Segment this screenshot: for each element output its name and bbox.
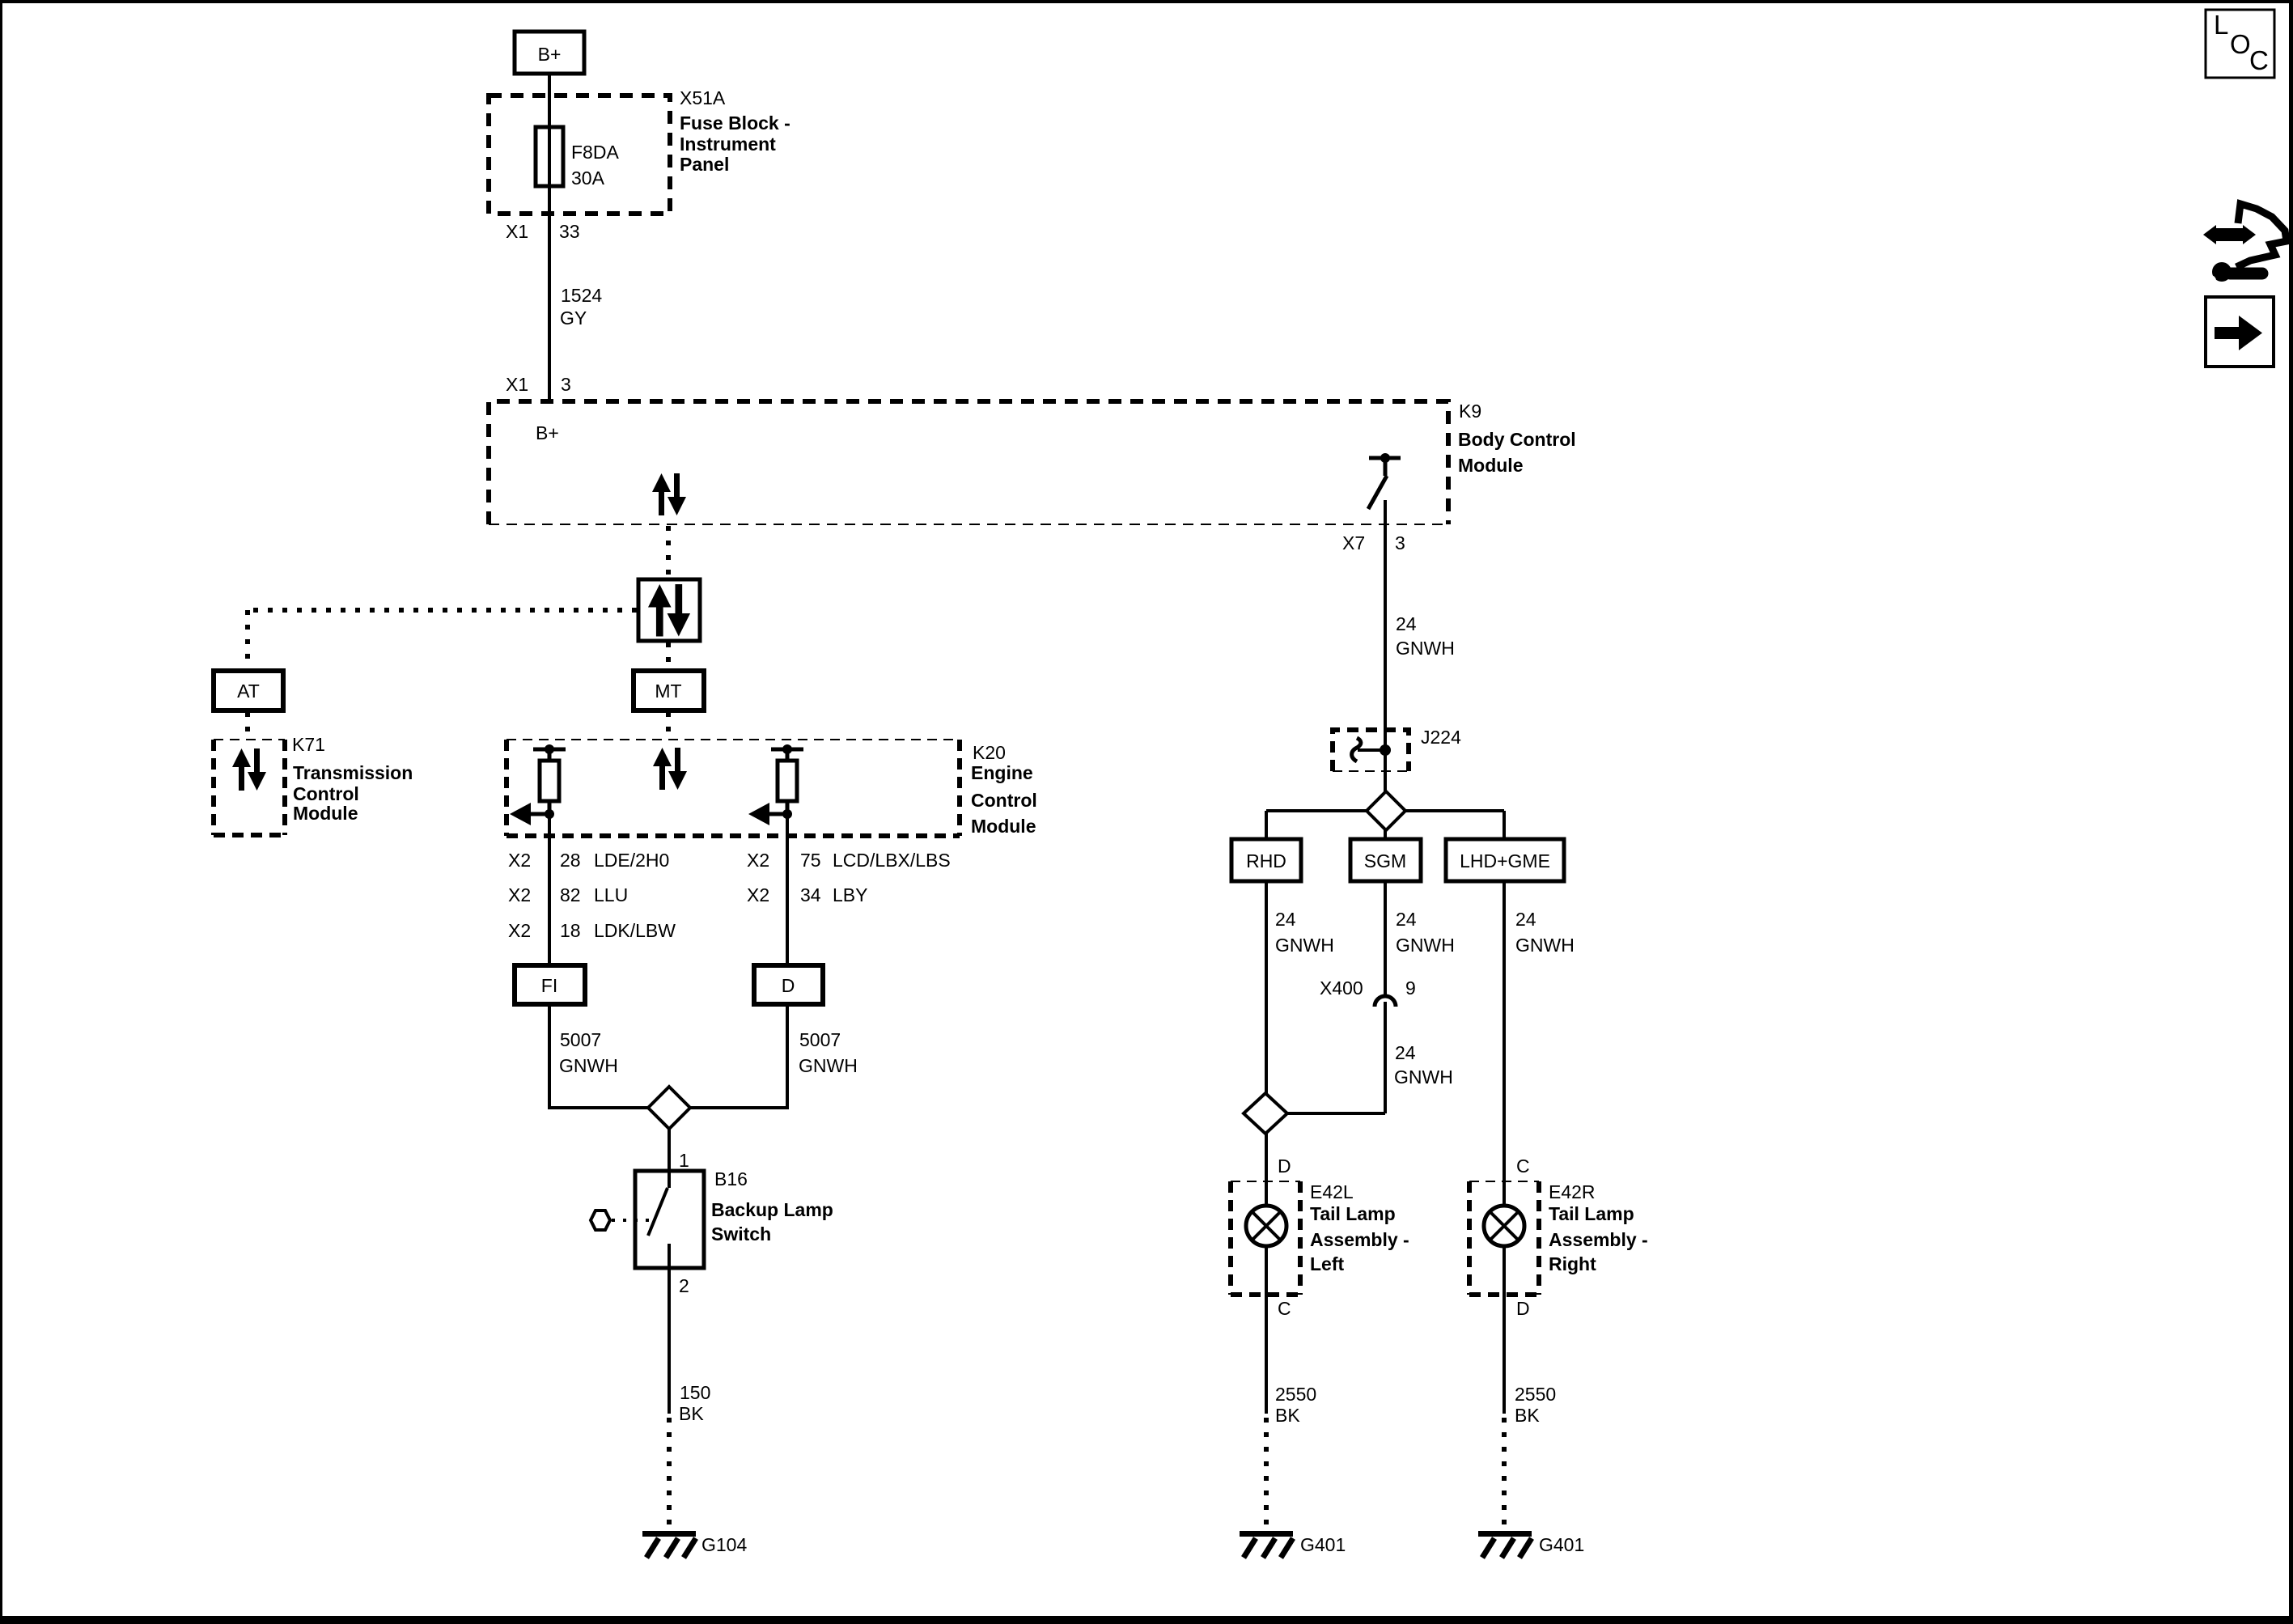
svg-text:GNWH: GNWH	[1394, 1066, 1453, 1088]
svg-text:Right: Right	[1549, 1253, 1596, 1274]
twisted-wire navigation icon	[2203, 204, 2287, 286]
svg-text:Engine: Engine	[971, 762, 1033, 783]
svg-text:GNWH: GNWH	[559, 1055, 618, 1076]
option box RHD	[1231, 839, 1301, 881]
svg-text:LDK/LBW: LDK/LBW	[594, 920, 676, 941]
option box D	[754, 965, 823, 1004]
svg-text:GNWH: GNWH	[1396, 935, 1455, 956]
tail lamp assembly E42R dashed box	[1469, 1181, 1539, 1295]
svg-text:Module: Module	[1458, 455, 1524, 476]
wire E42R to ground	[1503, 1246, 1506, 1414]
low-side driver left in K20	[528, 749, 566, 814]
dotted link MT to K20	[666, 712, 671, 738]
svg-text:LCD/LBX/LBS: LCD/LBX/LBS	[833, 850, 951, 871]
svg-text:Fuse Block -: Fuse Block -	[680, 112, 790, 134]
svg-text:E42R: E42R	[1549, 1181, 1596, 1202]
svg-text:Instrument: Instrument	[680, 134, 776, 155]
signal arrows in BCM	[652, 473, 686, 515]
svg-text:82: 82	[560, 884, 581, 905]
svg-text:Transmission: Transmission	[293, 762, 413, 783]
svg-text:L: L	[2214, 10, 2228, 40]
dotted link selector to AT	[248, 608, 637, 613]
svg-text:2550: 2550	[1275, 1384, 1316, 1405]
svg-text:Panel: Panel	[680, 154, 729, 175]
switch contact dot	[1380, 453, 1390, 463]
svg-text:LDE/2H0: LDE/2H0	[594, 850, 669, 871]
ground G401 left	[1240, 1534, 1293, 1558]
svg-text:Control: Control	[293, 783, 359, 804]
svg-text:Module: Module	[971, 816, 1036, 837]
ground G401 right	[1478, 1534, 1532, 1558]
svg-text:LBY: LBY	[833, 884, 867, 905]
switch upper contact	[668, 1171, 671, 1188]
svg-text:Switch: Switch	[711, 1223, 771, 1245]
fuse block X51A dashed box	[489, 95, 670, 214]
actuator dotted link	[612, 1219, 653, 1222]
battery feed B+ box	[515, 32, 584, 74]
svg-text:X1: X1	[506, 374, 528, 395]
svg-text:3: 3	[1395, 532, 1405, 553]
backup lamp switch B16 box	[635, 1171, 704, 1268]
svg-text:24: 24	[1396, 613, 1417, 634]
svg-text:BK: BK	[1515, 1405, 1540, 1426]
body control module K9 dashed box	[489, 401, 1448, 524]
transmission selector symbol box	[638, 579, 700, 641]
wire splice to B16	[668, 1128, 671, 1171]
lamp E42L	[1246, 1206, 1286, 1246]
svg-text:24: 24	[1275, 909, 1296, 930]
svg-text:Assembly -: Assembly -	[1549, 1229, 1648, 1250]
switch lower contact and wire to ground label	[668, 1244, 671, 1414]
svg-text:1524: 1524	[561, 285, 602, 306]
svg-text:2550: 2550	[1515, 1384, 1556, 1405]
svg-text:X51A: X51A	[680, 87, 726, 108]
option box MT	[634, 671, 704, 710]
svg-text:D: D	[1278, 1155, 1291, 1177]
low-side driver right in K20	[766, 749, 803, 814]
wire FI to splice	[549, 1004, 648, 1108]
svg-text:28: 28	[560, 850, 581, 871]
actuator hex	[591, 1211, 610, 1230]
svg-text:GNWH: GNWH	[799, 1055, 858, 1076]
svg-text:BK: BK	[1275, 1405, 1300, 1426]
dotted link selector to MT	[666, 642, 671, 669]
svg-text:24: 24	[1515, 909, 1536, 930]
svg-text:24: 24	[1396, 909, 1417, 930]
svg-text:K9: K9	[1459, 401, 1481, 422]
svg-text:24: 24	[1395, 1042, 1416, 1063]
svg-text:5007: 5007	[560, 1029, 601, 1050]
svg-text:18: 18	[560, 920, 581, 941]
LOC legend box	[2206, 10, 2274, 78]
svg-text:K71: K71	[292, 734, 325, 755]
svg-text:LHD+GME: LHD+GME	[1460, 850, 1550, 871]
inline connector J224 dashed box	[1333, 730, 1409, 771]
svg-text:C: C	[1278, 1298, 1291, 1319]
relay switch in BCM	[1368, 458, 1401, 509]
splice diamond left lamp	[1244, 1093, 1287, 1134]
svg-text:2: 2	[679, 1275, 689, 1296]
svg-text:X2: X2	[747, 850, 769, 871]
svg-text:X2: X2	[508, 920, 531, 941]
svg-text:X1: X1	[506, 221, 528, 242]
dotted wire to G401 right	[1502, 1418, 1507, 1529]
junction dot at J224	[1380, 744, 1391, 756]
wire D to splice	[690, 1004, 787, 1108]
svg-text:LLU: LLU	[594, 884, 628, 905]
svg-text:X2: X2	[747, 884, 769, 905]
svg-text:Assembly -: Assembly -	[1310, 1229, 1409, 1250]
svg-text:O: O	[2230, 29, 2251, 59]
dotted link BCM to selector	[666, 526, 671, 578]
svg-text:RHD: RHD	[1246, 850, 1286, 871]
ground G104	[642, 1534, 696, 1558]
engine control module K20 dashed box	[506, 740, 960, 836]
svg-text:B16: B16	[714, 1168, 748, 1189]
signal arrows in K71	[232, 748, 266, 791]
svg-text:Tail Lamp: Tail Lamp	[1549, 1203, 1634, 1224]
svg-text:K20: K20	[973, 742, 1006, 763]
splice diamond	[1367, 791, 1405, 830]
svg-text:3: 3	[561, 374, 571, 395]
svg-text:75: 75	[800, 850, 821, 871]
svg-text:BK: BK	[679, 1403, 704, 1424]
tail lamp assembly E42L dashed box	[1231, 1181, 1300, 1295]
svg-text:J224: J224	[1421, 727, 1461, 748]
svg-text:Body Control: Body Control	[1458, 429, 1576, 450]
wire B+ to BCM through fuse	[548, 74, 551, 401]
wire LHD+GME down	[1503, 881, 1506, 1206]
option box LHD+GME	[1446, 839, 1564, 881]
svg-text:Module: Module	[293, 803, 358, 824]
svg-text:G401: G401	[1539, 1534, 1584, 1555]
junction dot left driver	[545, 809, 554, 819]
svg-text:G401: G401	[1300, 1534, 1346, 1555]
dotted wire to G104	[667, 1418, 672, 1529]
svg-text:1: 1	[679, 1150, 689, 1171]
svg-text:B+: B+	[536, 422, 559, 443]
option box FI	[515, 965, 585, 1004]
svg-text:C: C	[1516, 1155, 1530, 1177]
svg-text:9: 9	[1405, 977, 1416, 999]
wire bus to RHD/SGM/LHD	[1266, 809, 1504, 812]
J224 pigtail lead	[1358, 748, 1385, 752]
wire K20 to D	[786, 814, 789, 965]
svg-text:33: 33	[559, 221, 580, 242]
svg-text:F8DA: F8DA	[571, 142, 619, 163]
svg-text:D: D	[782, 975, 795, 996]
svg-text:34: 34	[800, 884, 821, 905]
svg-text:X2: X2	[508, 850, 531, 871]
svg-text:5007: 5007	[799, 1029, 841, 1050]
splice diamond above B16	[648, 1087, 690, 1129]
svg-text:G104: G104	[701, 1534, 747, 1555]
wire SGM down	[1384, 881, 1387, 996]
svg-text:X2: X2	[508, 884, 531, 905]
svg-text:E42L: E42L	[1310, 1181, 1354, 1202]
svg-text:Backup Lamp: Backup Lamp	[711, 1199, 833, 1220]
svg-text:B+: B+	[538, 44, 562, 65]
fuse F8DA 30A	[536, 127, 563, 186]
svg-text:X400: X400	[1320, 977, 1363, 999]
svg-text:C: C	[2249, 45, 2269, 75]
wire E42L to ground	[1265, 1246, 1268, 1414]
switch blade	[648, 1188, 668, 1236]
wire BCM X7-3 to J224 and splice	[1384, 500, 1387, 791]
svg-text:Control: Control	[971, 790, 1037, 811]
option box AT	[214, 671, 283, 710]
wire RHD down	[1265, 881, 1268, 1093]
junction dot right driver	[782, 809, 792, 819]
lamp E42R	[1484, 1206, 1524, 1246]
svg-text:AT: AT	[237, 681, 260, 702]
transmission control module K71 dashed box	[214, 740, 285, 835]
svg-text:MT: MT	[655, 681, 681, 702]
contact dot top right driver	[782, 744, 792, 754]
svg-text:150: 150	[680, 1382, 710, 1403]
svg-text:D: D	[1516, 1298, 1530, 1319]
wire X400 to splice	[1384, 1002, 1387, 1113]
svg-text:X7: X7	[1342, 532, 1365, 553]
arrow navigation icon	[2206, 297, 2274, 367]
svg-text:Left: Left	[1310, 1253, 1345, 1274]
signal arrows in K20	[653, 748, 687, 790]
svg-text:Tail Lamp: Tail Lamp	[1310, 1203, 1396, 1224]
dotted wire to G401 left	[1264, 1418, 1269, 1529]
svg-text:GNWH: GNWH	[1396, 638, 1455, 659]
svg-text:GY: GY	[560, 307, 587, 329]
arrowhead left driver	[510, 803, 531, 825]
svg-text:GNWH: GNWH	[1515, 935, 1575, 956]
wire K20 to FI	[548, 814, 551, 965]
dotted link AT to K71	[245, 712, 250, 738]
contact dot top left driver	[545, 744, 554, 754]
svg-text:FI: FI	[541, 975, 557, 996]
option box SGM	[1350, 839, 1421, 881]
svg-text:30A: 30A	[571, 167, 605, 189]
svg-text:GNWH: GNWH	[1275, 935, 1334, 956]
wire splice to E42L	[1265, 1134, 1268, 1206]
svg-text:SGM: SGM	[1364, 850, 1406, 871]
arrowhead right driver	[748, 803, 769, 825]
